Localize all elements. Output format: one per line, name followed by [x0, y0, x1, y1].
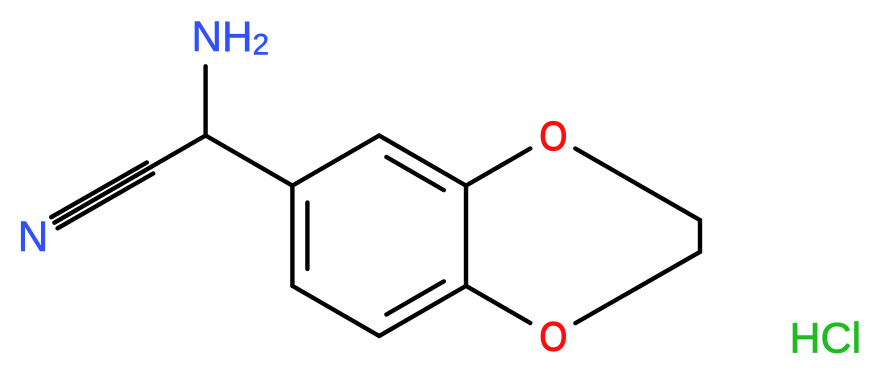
bond O1-CH2: [575, 149, 700, 221]
bond CH-C(nitrile): [119, 136, 206, 186]
bond O2-CH2: [575, 252, 700, 323]
benzene edge B-BL: [292, 286, 379, 336]
benzene double bond inner line top-right: [386, 157, 443, 190]
benzene double bond inner line left: [305, 203, 309, 269]
bond C(ar)-O1: [466, 149, 530, 186]
benzene edge TL-T: [292, 136, 379, 186]
benzene edge BR-B: [379, 286, 466, 336]
bond CH2-CH2: [698, 220, 702, 252]
svg-text:O: O: [540, 114, 568, 160]
svg-text:HCl: HCl: [790, 314, 862, 362]
nitrile triple bond outer line 1: [51, 163, 147, 218]
bond CH-NH2: [203, 66, 207, 135]
bond C(ar)-O2: [466, 286, 530, 323]
benzene edge BL-TL: [290, 186, 294, 286]
benzene double bond inner line bottom-right: [386, 281, 443, 314]
svg-text:O: O: [540, 314, 568, 360]
nitrile triple bond outer line 2: [58, 174, 154, 229]
svg-text:N: N: [18, 213, 49, 260]
bond CH-ring: [206, 136, 293, 186]
nitrile triple bond center line: [54, 186, 118, 223]
benzene edge TR-BR (fused): [464, 186, 468, 286]
benzene edge T-TR: [379, 136, 466, 186]
